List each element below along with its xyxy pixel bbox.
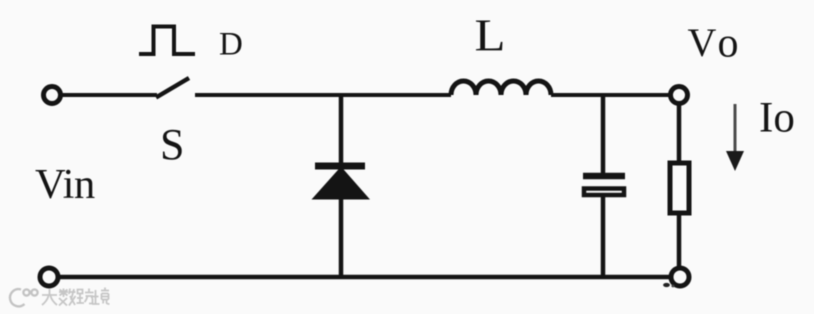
svg-text:D: D [219,27,243,63]
svg-text:L: L [475,11,506,61]
svg-text:Io: Io [759,95,795,142]
svg-text:Vin: Vin [35,161,95,208]
svg-text:V: V [688,20,717,65]
svg-text:S: S [160,120,184,169]
svg-text:o: o [718,21,739,67]
